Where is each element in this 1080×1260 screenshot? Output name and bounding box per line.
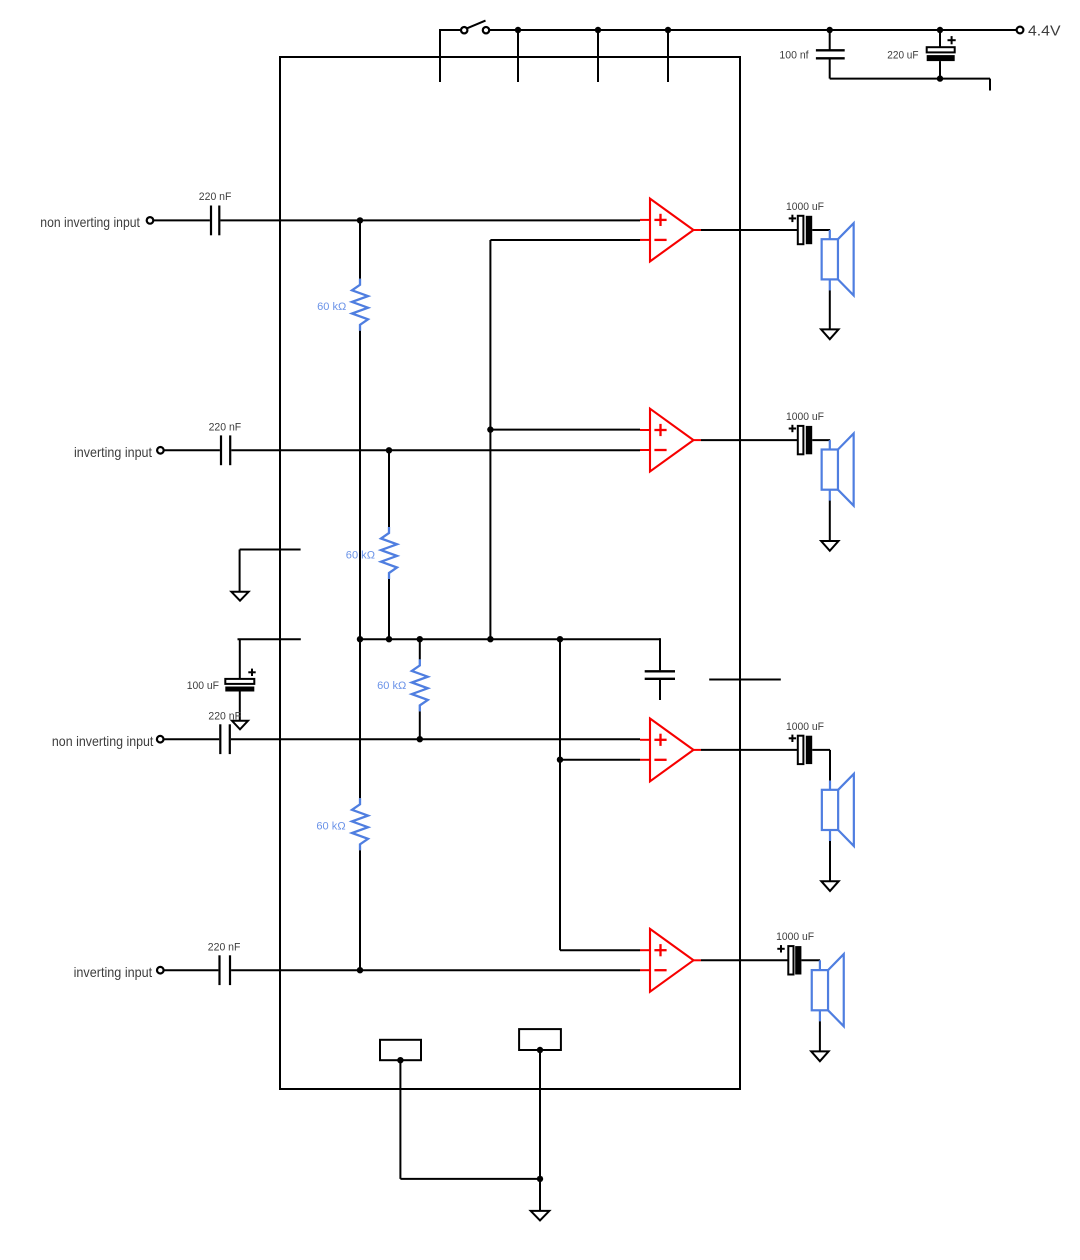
wire C7 bottom lead (939, 61, 941, 79)
label C10 1000 uF (786, 721, 824, 733)
wire to U4 noninv (560, 949, 640, 951)
terminal 4.4V (1017, 27, 1024, 34)
svg-text:inverting input: inverting input (74, 444, 152, 460)
wire R4 lower lead (359, 850, 361, 970)
wire C8 to speaker LS1 (812, 229, 830, 231)
resistor R3 60k (412, 659, 428, 711)
node junction bus R2 (386, 636, 392, 642)
svg-text:100 uF: 100 uF (187, 680, 220, 692)
wire power rail to 4.4V terminal (489, 29, 1016, 31)
wire to U2 noninv (490, 429, 640, 431)
ground main (531, 1211, 550, 1221)
svg-text:220 uF: 220 uF (887, 50, 918, 62)
wire ground stub upper (240, 550, 301, 592)
wire C2 to op-amp U2 inv (231, 449, 640, 451)
svg-text:220 nF: 220 nF (208, 941, 241, 953)
speaker LS4 (812, 954, 844, 1026)
wire bus elbow to C5 (659, 638, 661, 670)
wire pin stub x518 (517, 30, 519, 82)
svg-text:1000 uF: 1000 uF (776, 931, 814, 943)
wire R1 lower lead to bias bus (359, 331, 361, 639)
wire bias bus (360, 638, 660, 640)
node junction R1 top (357, 217, 363, 223)
wire LS3 elbow down (829, 750, 831, 781)
wire input ch4 to C4 (164, 969, 219, 971)
label R4 60 kOhm (316, 820, 345, 832)
svg-text:60 kΩ: 60 kΩ (316, 820, 345, 832)
wire U3 output (701, 749, 798, 751)
speaker LS2 (822, 434, 854, 506)
op-amp U2 (640, 409, 701, 472)
label non inverting input ch3 (52, 733, 154, 749)
node junction U1 inv to U2 noninv (487, 426, 493, 432)
svg-text:220 nF: 220 nF (209, 421, 242, 433)
wire C12 to ground (239, 692, 241, 721)
label C4 220 nF (208, 941, 241, 953)
wire C7 top lead (939, 30, 941, 47)
wire power return down stub (989, 79, 991, 91)
resistor R1 60k (352, 279, 368, 331)
wire LS4 to ground (819, 1021, 821, 1051)
node junction top pin3 (595, 27, 601, 33)
capacitor C5 (645, 671, 675, 679)
svg-text:60 kΩ: 60 kΩ (377, 680, 406, 692)
wire input ch1 to C1 (153, 219, 210, 221)
label inverting input ch2 (74, 444, 152, 460)
switch S1 (461, 21, 489, 34)
wire C1 to op-amp U1 noninv (220, 219, 640, 221)
wire C3 to op-amp U3 noninv (231, 738, 640, 740)
label 4.4V (1028, 22, 1061, 39)
speaker LS1 (822, 223, 854, 295)
svg-text:220 nF: 220 nF (208, 711, 241, 723)
capacitor C4 220 nF (220, 955, 231, 985)
wire R3 upper lead (419, 639, 421, 659)
capacitor C3 220 nF (220, 724, 230, 754)
node junction bus U3U4 net (557, 636, 563, 642)
label C3 220 nF (208, 711, 241, 723)
wire input ch3 to C3 (164, 738, 220, 740)
wire pin stub x668 (667, 30, 669, 82)
label C1 220 nF (199, 191, 232, 203)
wire R2 lower lead to bias bus (388, 579, 390, 639)
IC amplifier body outline (280, 57, 740, 1089)
label R2 60 kOhm (346, 549, 375, 561)
wire C4 to op-amp U4 inv (231, 969, 640, 971)
wire bias bus left stub (238, 638, 301, 640)
svg-text:60 kΩ: 60 kΩ (317, 301, 346, 313)
svg-text:60 kΩ: 60 kΩ (346, 549, 375, 561)
wire U3 inv input net (560, 759, 640, 761)
terminal inverting input ch4 (157, 967, 164, 974)
capacitor C7 220 uF (927, 36, 956, 61)
ground LS4 (811, 1051, 828, 1061)
wire power return horizontal (830, 78, 990, 80)
node junction bus U1U2 net (487, 636, 493, 642)
pad P2 (519, 1029, 561, 1050)
svg-text:non inverting input: non inverting input (52, 733, 154, 749)
label C6 100 nf (779, 50, 809, 62)
resistor R4 60k (352, 798, 368, 850)
svg-text:non inverting input: non inverting input (40, 214, 140, 230)
label inverting input ch4 (74, 964, 153, 980)
label C7 220 uF (887, 50, 918, 62)
node junction C7 bottom (937, 75, 943, 81)
op-amp U1 (640, 199, 701, 262)
svg-text:220 nF: 220 nF (199, 191, 232, 203)
wire R2 upper lead (388, 450, 390, 527)
wire P2 to ground (539, 1050, 541, 1211)
svg-text:inverting input: inverting input (74, 964, 153, 980)
label R3 60 kOhm (377, 680, 406, 692)
label R1 60 kOhm (317, 301, 346, 313)
svg-text:1000 uF: 1000 uF (786, 721, 824, 733)
wire U1 inv input net (490, 240, 640, 639)
ground LS2 (821, 541, 838, 551)
capacitor C1 220 nF (211, 206, 219, 236)
capacitor C12 100 uF (225, 669, 255, 692)
svg-text:100 nf: 100 nf (779, 50, 809, 62)
ground upper left (231, 592, 248, 601)
wire C9 to speaker LS2 (812, 439, 830, 441)
ground C12 (232, 721, 248, 730)
capacitor C10 1000 uF (789, 735, 813, 765)
resistor R2 60k (381, 527, 397, 579)
wire C6 top lead (829, 30, 831, 50)
capacitor C2 220 nF (221, 435, 230, 465)
terminal non inverting input ch3 (157, 736, 164, 743)
node junction top pin2 (515, 27, 521, 33)
wire R1 upper lead (359, 220, 361, 278)
wire power rail left segment (440, 29, 461, 31)
op-amp U4 (640, 929, 701, 992)
wire C11 to speaker LS4 (801, 959, 820, 961)
ground LS3 (821, 881, 838, 891)
label C2 220 nF (209, 421, 242, 433)
node junction R4 bottom (357, 967, 363, 973)
label non inverting input ch1 (40, 214, 140, 230)
node junction bus R1R4 (357, 636, 363, 642)
op-amp U3 (640, 719, 701, 782)
node junction R3 bottom (417, 736, 423, 742)
wire pin stub x440 (439, 29, 441, 82)
wire U1 output (701, 229, 798, 231)
terminal inverting input ch2 (157, 447, 164, 454)
node junction R2 top (386, 447, 392, 453)
capacitor C9 1000 uF (789, 425, 813, 455)
label C9 1000 uF (786, 411, 824, 423)
wire R4 upper lead (359, 639, 361, 798)
wire bias to C12 (239, 639, 241, 679)
svg-text:4.4V: 4.4V (1028, 22, 1061, 39)
wire U2 output (701, 439, 798, 441)
node junction P1 pin (397, 1057, 403, 1063)
wire LS3 to ground (829, 841, 831, 881)
wire C5 bottom stub (659, 679, 661, 700)
speaker LS3 (822, 774, 854, 846)
pad P1 (380, 1040, 421, 1060)
label C8 1000 uF (786, 201, 824, 213)
node junction top pin4 (665, 27, 671, 33)
node junction ground bus (537, 1176, 543, 1182)
wire R3 lower lead (419, 711, 421, 739)
node junction U3 inv (557, 757, 563, 763)
capacitor C11 1000 uF (777, 945, 801, 974)
terminal non inverting input ch1 (147, 217, 154, 224)
wire C6 bottom lead (829, 58, 831, 78)
capacitor C8 1000 uF (789, 215, 813, 245)
wire U4 output (701, 959, 788, 961)
wire C10 to speaker LS3 (812, 749, 830, 751)
node junction bus R3 (417, 636, 423, 642)
wire LS1 to ground (829, 290, 831, 329)
wire pin stub x598 (597, 30, 599, 82)
wire P1 to ground bus (400, 1060, 540, 1179)
svg-text:1000 uF: 1000 uF (786, 201, 824, 213)
ground LS1 (821, 329, 838, 339)
svg-text:1000 uF: 1000 uF (786, 411, 824, 423)
wire input ch2 to C2 (164, 449, 220, 451)
wire U3U4 column (559, 639, 561, 950)
wire floating plate right (709, 679, 781, 681)
label C12 100 uF (187, 680, 220, 692)
node junction at C6 (827, 27, 833, 33)
label C11 1000 uF (776, 931, 814, 943)
capacitor C6 100nf (816, 50, 845, 58)
node junction at C7 (937, 27, 943, 33)
wire LS2 to ground (829, 501, 831, 541)
node junction P2 pin (537, 1047, 543, 1053)
